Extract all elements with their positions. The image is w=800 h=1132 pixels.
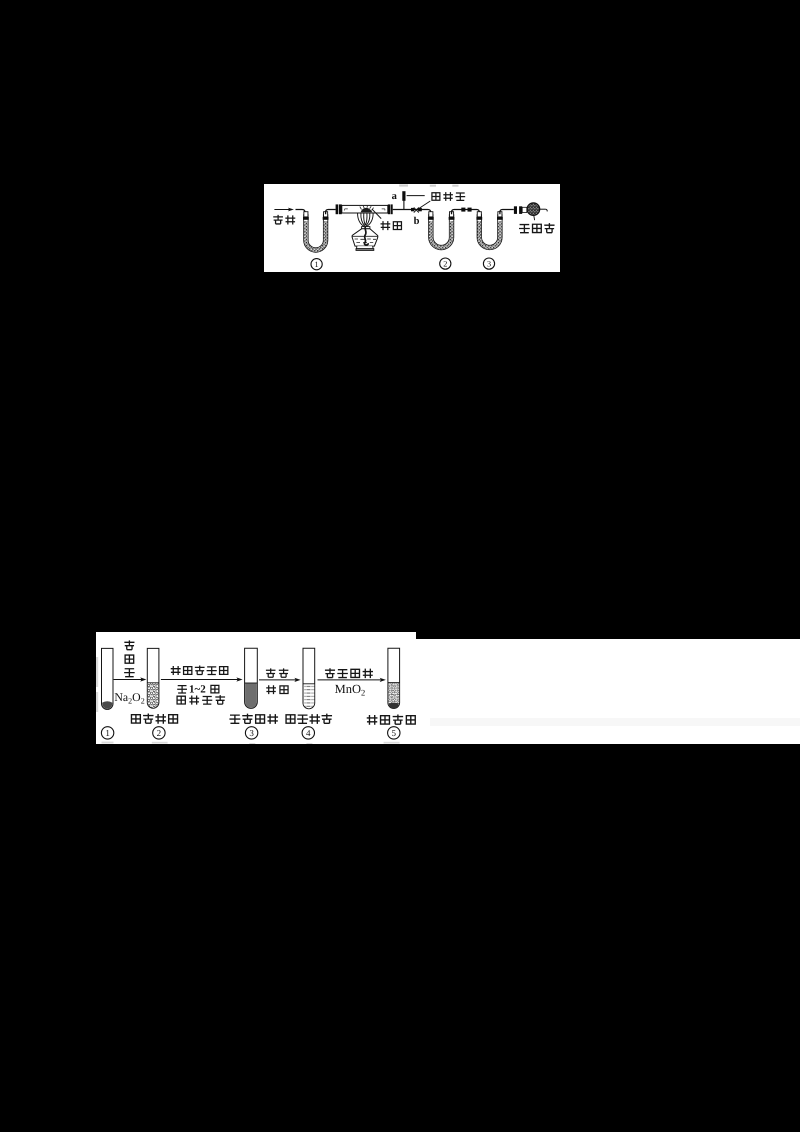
alcohol lamp flame (357, 213, 373, 226)
sample pile inside tube (359, 205, 373, 212)
drying bulb stopper bars (513, 206, 526, 214)
U-tube 1 (drying tube) (303, 211, 329, 249)
label 大量气泡 (many bubbles) (131, 714, 177, 724)
wire from U-tube 1 to combustion tube (325, 209, 335, 214)
white figure panel 2 (test tube sequence band) (96, 632, 800, 744)
label 碱石灰 (soda lime) (519, 223, 555, 233)
red solution in tube 3 (245, 683, 258, 708)
label 酚酞溶液 (177, 695, 225, 705)
svg-text:1: 1 (105, 728, 110, 738)
svg-text:Na2O2: Na2O2 (114, 690, 144, 705)
arrow 2 to 3 (161, 677, 243, 681)
wire U2 to U3 with clamp (451, 209, 479, 214)
svg-text:2: 2 (443, 259, 447, 268)
U-tube 3 (476, 211, 502, 247)
label 弹簧夹 (spring clamp) (431, 192, 464, 201)
branch tube a (vertical) (402, 191, 404, 209)
wire U3 to drying bulb (499, 209, 513, 214)
lamp body (352, 228, 378, 245)
label 足量水 (excess water, vertical) (124, 640, 135, 676)
faded liquid dashes in tube 4 (303, 684, 315, 708)
label 气泡消失后 (171, 666, 228, 676)
label 溶液变红 (solution turns red) (229, 714, 278, 724)
svg-text:1~2: 1~2 (189, 684, 206, 696)
arrow 4 to 5 (318, 678, 386, 682)
label 较多气泡 (more bubbles) (367, 715, 416, 725)
svg-text:3: 3 (249, 728, 254, 738)
lamp collar (361, 226, 369, 228)
label 红色褪去 (red fades) (286, 714, 332, 724)
spring clamp at a (402, 191, 405, 201)
black notch over band top right (416, 632, 800, 639)
svg-text:a: a (391, 191, 397, 202)
label 样品 (sample) (380, 221, 401, 230)
clamp between U2 and U3 (461, 207, 471, 211)
combustion tube right stopper (387, 204, 392, 214)
wire from combustion tube to U-tube 2 with junction (392, 209, 430, 214)
circled number 4 (302, 727, 314, 739)
soda lime ball (527, 202, 547, 219)
svg-text:MnO2: MnO2 (335, 682, 366, 698)
circled number 5 (388, 727, 400, 739)
test tube 5 outline (388, 648, 400, 708)
circled number 2 (153, 727, 165, 739)
label 滴1~2滴 (177, 684, 219, 696)
svg-text:3: 3 (486, 259, 490, 268)
MnO2 blob bottom of tube 5 (389, 703, 399, 709)
test tube 4 outline (303, 648, 315, 709)
svg-text:4: 4 (306, 728, 311, 738)
combustion tube left stopper (335, 204, 341, 214)
svg-text:1: 1 (314, 260, 318, 269)
label 空气 (air) (273, 214, 295, 224)
bubbling liquid in tube 5 (388, 683, 400, 708)
faint edge artifacts (96, 657, 400, 744)
lamp liquid line and dashes (352, 236, 377, 242)
label 加入少量 (add small amount) (325, 668, 373, 678)
svg-text:5: 5 (392, 728, 397, 738)
label 振荡 (shake) (266, 685, 288, 694)
lamp wick (364, 225, 368, 244)
lamp base (356, 246, 374, 250)
svg-text:b: b (413, 216, 419, 227)
air inlet arrow (274, 207, 294, 211)
U-tube 2 (427, 211, 454, 247)
faint off-white band right (430, 718, 800, 726)
diagonal leader to clamp b (416, 201, 430, 210)
leader from clamp a to label (406, 194, 424, 196)
Na2O2 solid blob in tube 1 (102, 701, 112, 708)
inlet wire bend into U-tube 1 (295, 209, 304, 214)
test tube 1 outline (102, 648, 114, 709)
arrow 1 to 2 (114, 677, 147, 681)
circled number 1 (311, 258, 322, 269)
circled number 3 (483, 258, 494, 269)
arrow 3 to 4 (259, 678, 301, 682)
white figure panel 1 (gas train apparatus) (264, 184, 561, 272)
combustion tube body (341, 205, 387, 213)
label 轻轻 (gently) (266, 668, 288, 677)
circled number 3 (245, 727, 257, 739)
bubbles in tube 2 (147, 683, 159, 708)
circled number 1 (101, 727, 113, 739)
faint gray ticks top edge (399, 184, 458, 186)
circled number 2 (439, 258, 450, 269)
test tube 3 outline (245, 648, 258, 708)
test tube 2 outline (147, 648, 159, 708)
svg-text:2: 2 (157, 728, 162, 738)
spring clamp at b (411, 207, 422, 212)
leader line to sample label (372, 209, 381, 218)
